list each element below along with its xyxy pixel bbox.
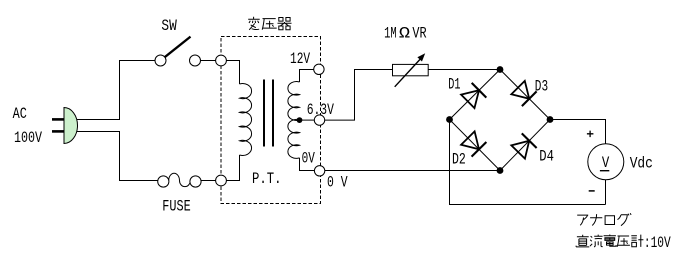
svg-text:12V: 12V xyxy=(290,50,310,68)
svg-text:D3: D3 xyxy=(535,77,548,95)
svg-text:0 V: 0 V xyxy=(327,174,348,192)
svg-text:6.3V: 6.3V xyxy=(307,101,334,119)
svg-text:0V: 0V xyxy=(302,150,315,168)
svg-text:Ω: Ω xyxy=(399,24,411,42)
svg-text:P.T.: P.T. xyxy=(252,170,282,188)
svg-text:FUSE: FUSE xyxy=(162,197,190,215)
svg-text:Vdc: Vdc xyxy=(630,154,653,172)
svg-text::10V: :10V xyxy=(644,234,671,252)
svg-text:1M: 1M xyxy=(384,24,397,42)
svg-text:D4: D4 xyxy=(539,147,554,165)
svg-text:100V: 100V xyxy=(14,129,42,147)
svg-text:V: V xyxy=(602,154,610,172)
svg-text:D2: D2 xyxy=(452,150,466,168)
svg-text:AC: AC xyxy=(13,105,27,123)
svg-text:D1: D1 xyxy=(448,76,460,94)
svg-text:VR: VR xyxy=(412,24,426,42)
svg-text:SW: SW xyxy=(161,17,177,35)
